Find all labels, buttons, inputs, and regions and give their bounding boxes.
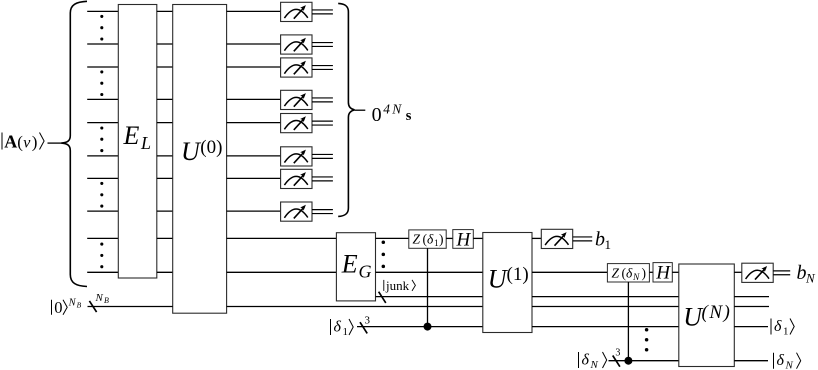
gate U^(0) box <box>173 5 227 314</box>
wire junk U1 to UN <box>532 296 679 298</box>
vdots between r3 and r4 <box>100 70 103 73</box>
wire N_B output <box>734 306 769 308</box>
svg-text:): ) <box>32 133 38 152</box>
wire delta1 to U1 <box>357 326 483 328</box>
svg-text:E: E <box>341 249 358 278</box>
svg-text:): ) <box>439 232 444 247</box>
meter measurement row 8 <box>281 202 312 221</box>
gate Z(delta_1) box <box>409 230 446 248</box>
wire |0> N_B to U0 <box>88 306 173 308</box>
svg-text:): ) <box>642 266 647 281</box>
wire brace-to-label connector <box>355 109 366 111</box>
wire U1 to Z(deltaN) row 10 <box>532 271 607 273</box>
wire deltaN to UN <box>609 360 679 362</box>
input label |delta_1> <box>331 319 354 339</box>
svg-text:H: H <box>655 263 671 284</box>
svg-text:δ: δ <box>626 266 633 281</box>
wire deltaN output <box>734 360 768 362</box>
svg-text:B: B <box>104 296 109 305</box>
svg-text:δ: δ <box>774 318 782 335</box>
gate E_L box <box>118 5 157 279</box>
svg-text:3: 3 <box>365 314 371 326</box>
svg-text:U: U <box>181 137 202 166</box>
vdots between delta registers <box>645 328 649 332</box>
wire U0 to meter row 3 <box>227 66 281 68</box>
wire E_L to U0 row 8 <box>157 210 173 212</box>
label Z(delta_N) <box>612 266 647 284</box>
meter measurement row 3 <box>281 58 312 77</box>
gate U^(N) box <box>679 264 735 367</box>
wire E_L to U0 row 7 <box>157 177 173 179</box>
wire E_L to U0 row 3 <box>157 66 173 68</box>
wire E_G to U1 row 10 <box>376 271 483 273</box>
input label |delta_N> <box>579 352 607 370</box>
control vertical line delta1 to Z(delta1) <box>427 248 429 326</box>
wire UN to meter bN <box>734 271 742 273</box>
bundle slash on deltaN wire <box>613 356 620 367</box>
wire input stub row 8 <box>87 210 118 212</box>
wire E_L to U0 row 9 <box>157 237 173 239</box>
svg-text:δ: δ <box>334 319 342 336</box>
meter b1 measurement <box>541 229 572 248</box>
label Z(delta_1) <box>413 232 444 250</box>
svg-text:1: 1 <box>343 326 349 338</box>
svg-text:0: 0 <box>372 104 382 126</box>
wire N_B U0 to U1 <box>227 306 483 308</box>
wire label-to-brace connector <box>48 142 62 144</box>
wire delta1 U1 to UN <box>532 326 679 328</box>
svg-text:N: N <box>590 359 599 370</box>
label b_N <box>797 262 817 286</box>
wire input stub row 1 <box>87 10 118 12</box>
wire input stub row 9 <box>87 237 118 239</box>
vdots between E_G outputs <box>382 240 386 244</box>
svg-text:L: L <box>140 133 151 153</box>
svg-text:N: N <box>805 270 816 285</box>
svg-text:E: E <box>123 121 140 150</box>
meter measurement row 7 <box>281 169 312 188</box>
svg-text:0: 0 <box>54 298 62 317</box>
wire H to U1 <box>473 237 483 239</box>
meter measurement row 1 <box>281 2 312 21</box>
meter measurement row 6 <box>281 147 312 166</box>
vdots between r9 and r10 <box>100 243 103 246</box>
output label |delta_N> <box>774 352 801 370</box>
control vertical line deltaN to Z(deltaN) <box>627 282 629 361</box>
wire Z(delta1) to H <box>446 237 453 239</box>
svg-text:ν: ν <box>23 135 31 152</box>
svg-text:3: 3 <box>615 348 620 359</box>
svg-text:G: G <box>359 261 372 281</box>
gate H box (first) <box>453 230 474 249</box>
wire U0 to E_G row 9 <box>227 237 337 239</box>
right curly brace grouping measurements <box>338 3 354 216</box>
wire U0 to meter row 5 <box>227 122 281 124</box>
svg-text:b: b <box>595 229 605 251</box>
label |junk> <box>384 278 416 293</box>
svg-text:δ: δ <box>582 352 590 369</box>
svg-text:A: A <box>4 132 17 152</box>
wire E_L to U0 row 4 <box>157 98 173 100</box>
wire U0 to meter row 1 <box>227 10 281 12</box>
svg-text:b: b <box>797 262 807 284</box>
svg-text:N: N <box>632 273 640 283</box>
wire input stub row 6 <box>87 155 118 157</box>
wire U0 to meter row 4 <box>227 98 281 100</box>
meter measurement row 4 <box>281 90 312 109</box>
wire junk E_G to U1 <box>376 296 483 298</box>
gate E_G box <box>336 233 375 301</box>
wire U1 to meter b1 <box>532 237 541 239</box>
wire input stub row 5 <box>87 122 118 124</box>
left curly brace grouping input register <box>61 1 87 286</box>
wire Z(deltaN) to H <box>649 271 653 273</box>
svg-text:δ: δ <box>427 232 434 247</box>
svg-text:(N): (N) <box>702 302 732 323</box>
svg-text:N: N <box>95 292 104 304</box>
meter measurement row 2 <box>281 35 312 54</box>
gate U^(1) box <box>483 233 532 333</box>
output label |delta_1> <box>771 318 794 338</box>
wire input stub row 2 <box>87 43 118 45</box>
meter bN measurement <box>742 263 773 282</box>
wire delta1 output <box>734 326 768 328</box>
wire U0 to meter row 2 <box>227 43 281 45</box>
wire H to UN <box>672 271 679 273</box>
svg-text:δ: δ <box>777 352 785 369</box>
svg-text:Z: Z <box>413 232 421 247</box>
input state label |A(v)> <box>2 132 44 152</box>
meter measurement row 5 <box>281 114 312 133</box>
svg-text:1: 1 <box>605 237 612 252</box>
bundle slash on N_B wire <box>89 301 96 312</box>
wire input stub row 10 <box>87 271 118 273</box>
wire input stub row 7 <box>87 177 118 179</box>
wire input stub row 3 <box>87 66 118 68</box>
svg-text:Z: Z <box>612 266 620 281</box>
wire U0 to E_G row 10 <box>227 271 337 273</box>
svg-text:H: H <box>456 229 472 250</box>
bundle slash on delta1 wire <box>360 322 367 333</box>
wire U0 to meter row 6 <box>227 155 281 157</box>
svg-text:N: N <box>68 297 77 308</box>
wire E_L to U0 row 10 <box>157 271 173 273</box>
wire E_L to U0 row 1 <box>157 10 173 12</box>
control dot on delta1 wire <box>424 323 432 331</box>
gate H box (second) <box>653 263 672 282</box>
svg-text:4N: 4N <box>383 101 403 116</box>
wire N_B U1 to UN <box>532 306 679 308</box>
label b_1 <box>595 229 611 253</box>
label N_B on slash <box>95 292 110 305</box>
svg-text:1: 1 <box>783 326 789 338</box>
vdots between r7 and r8 <box>100 182 103 185</box>
svg-text:junk: junk <box>385 278 410 293</box>
svg-text:B: B <box>77 300 82 309</box>
control dot on deltaN wire <box>624 357 632 365</box>
svg-text:s: s <box>406 108 412 124</box>
svg-text:(1): (1) <box>507 264 529 285</box>
wire U0 to meter row 7 <box>227 177 281 179</box>
vdots between r1 and r2 <box>100 15 103 18</box>
wire E_L to U0 row 5 <box>157 122 173 124</box>
input label |0>^{N_B} <box>52 297 82 317</box>
wire E_G to Z(delta1) <box>376 237 409 239</box>
wire junk output <box>734 296 769 298</box>
wire input stub row 4 <box>87 98 118 100</box>
wire E_L to U0 row 6 <box>157 155 173 157</box>
label 0^{4N}s <box>372 101 412 126</box>
svg-text:N: N <box>785 360 794 370</box>
bundle slash on junk wire <box>379 292 386 303</box>
vdots between r5 and r6 <box>100 126 103 129</box>
wire U0 to meter row 8 <box>227 210 281 212</box>
gate Z(delta_N) box <box>607 264 649 282</box>
svg-text:(0): (0) <box>200 137 222 158</box>
wire E_L to U0 row 2 <box>157 43 173 45</box>
